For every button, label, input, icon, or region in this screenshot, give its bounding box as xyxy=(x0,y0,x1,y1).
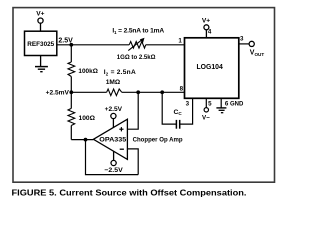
node output junction xyxy=(84,138,88,142)
wire compensation loop left xyxy=(162,92,176,124)
svg-text:100Ω: 100Ω xyxy=(79,115,96,122)
svg-text:V−: V− xyxy=(202,115,210,122)
wire compensation loop right xyxy=(180,98,193,124)
svg-text:V+: V+ xyxy=(202,18,210,25)
op-amp U2 OPA335 xyxy=(93,119,127,159)
svg-text:1MΩ: 1MΩ xyxy=(106,79,121,86)
resistor R2 100kOhm xyxy=(68,45,75,93)
power terminal V- (LOG104 pin 5) xyxy=(204,98,208,112)
power terminal V+ (LOG104 pin 4) xyxy=(204,25,209,38)
svg-text:V+: V+ xyxy=(36,11,44,18)
svg-text:REF3025: REF3025 xyxy=(27,41,54,48)
node +2.5mV junction xyxy=(69,90,73,94)
svg-text:100kΩ: 100kΩ xyxy=(78,68,98,75)
svg-text:OPA335: OPA335 xyxy=(99,137,126,144)
svg-text:6: 6 xyxy=(225,100,229,107)
voltage reference U1 REF3025 xyxy=(25,31,57,55)
node noninverting-input junction xyxy=(136,90,140,94)
capacitor C1 CC xyxy=(176,120,179,129)
svg-text:I2 = 2.5nA: I2 = 2.5nA xyxy=(104,69,136,76)
resistor R4 100Ohm xyxy=(68,92,75,139)
svg-text:4: 4 xyxy=(208,28,212,35)
power terminal +2.5V xyxy=(111,113,116,127)
svg-text:3: 3 xyxy=(240,36,244,43)
wire output feedback loop xyxy=(86,140,139,175)
inverting input minus mark xyxy=(120,148,124,150)
wire noninverting input to junction xyxy=(127,92,138,129)
svg-text:1GΩ to 2.5kΩ: 1GΩ to 2.5kΩ xyxy=(117,54,156,61)
svg-text:3: 3 xyxy=(186,100,190,107)
svg-text:FIGURE 5. Current Source with: FIGURE 5. Current Source with Offset Com… xyxy=(12,188,247,197)
resistor R1 1GOhm to 2.5kOhm (variable) xyxy=(128,38,145,51)
svg-text:I1 = 2.5nA to 1mA: I1 = 2.5nA to 1mA xyxy=(112,28,164,35)
wire 2.5V net xyxy=(57,44,129,46)
ground xyxy=(35,56,48,72)
power terminal V+ (REF3025 supply) xyxy=(38,18,43,31)
log amp U3 LOG104 xyxy=(185,38,239,99)
svg-text:2.5V: 2.5V xyxy=(58,37,73,44)
resistor R3 1MOhm xyxy=(107,89,122,96)
node compensation junction xyxy=(160,90,164,94)
svg-text:GND: GND xyxy=(230,101,244,107)
svg-text:Chopper Op Amp: Chopper Op Amp xyxy=(133,137,183,144)
wire to LOG104 pin 1 xyxy=(146,44,185,46)
svg-text:LOG104: LOG104 xyxy=(197,64,223,71)
wire +2.5mV node to 1MOhm xyxy=(71,91,106,93)
svg-text:−2.5V: −2.5V xyxy=(104,167,123,174)
terminal VOUT xyxy=(249,41,254,46)
svg-text:+2.5mV: +2.5mV xyxy=(46,90,70,97)
wire 1MOhm to LOG104 pin 8 xyxy=(122,91,185,93)
svg-text:5: 5 xyxy=(208,100,212,107)
wire inverting input to feedback loop xyxy=(127,149,138,175)
noninverting input plus mark xyxy=(119,127,123,131)
wire op-amp output xyxy=(71,139,93,141)
ground (LOG104 pin 6) xyxy=(216,98,226,112)
wire VOUT xyxy=(239,43,249,45)
svg-text:1: 1 xyxy=(178,37,182,44)
svg-text:8: 8 xyxy=(180,86,184,93)
power terminal -2.5V xyxy=(111,151,116,165)
svg-text:+2.5V: +2.5V xyxy=(105,106,123,113)
node 2.5V junction xyxy=(69,43,73,47)
